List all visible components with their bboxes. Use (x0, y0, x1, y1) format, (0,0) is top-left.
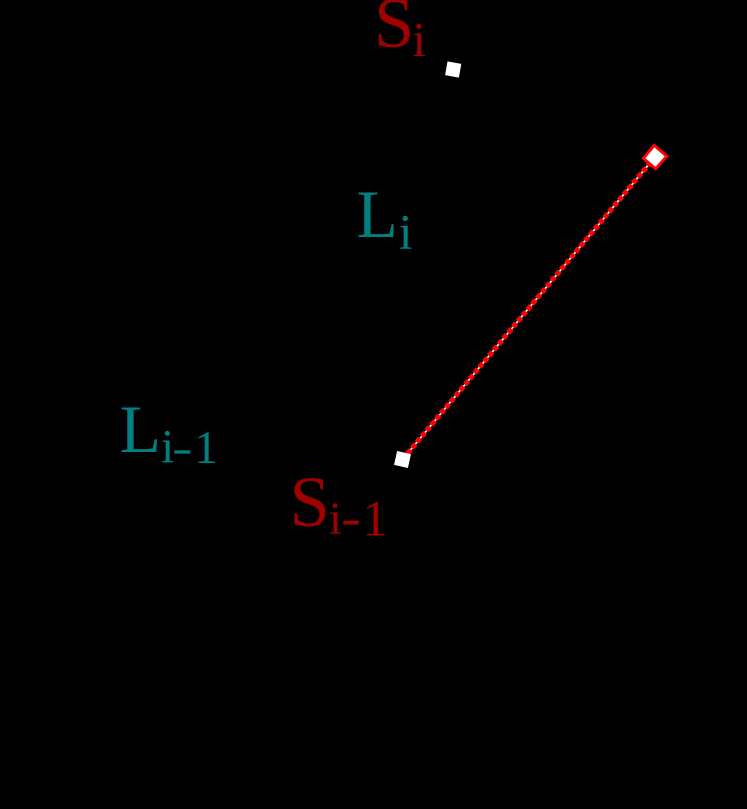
svg-text:1: 1 (362, 491, 387, 547)
wire: white underlay of dashed segment S_{i-1} to diamond (403, 158, 655, 460)
svg-text:i: i (413, 13, 427, 67)
svg-text:L: L (357, 177, 398, 252)
svg-text:i: i (329, 492, 342, 543)
svg-text:S: S (290, 461, 330, 542)
marker: white square at S_{i-1} (394, 451, 411, 468)
svg-text:i: i (161, 421, 174, 474)
svg-text:1: 1 (194, 422, 218, 474)
wire: red dashed segment S_{i-1} to diamond (403, 158, 655, 460)
label L_{i-1} : subscript minus (174, 450, 190, 453)
marker: white square at S_i (445, 61, 461, 77)
marker: red diamond (white fill) at end of dashed segment (643, 145, 666, 168)
label S_{i-1} : subscript minus (343, 521, 358, 525)
svg-text:L: L (120, 392, 161, 467)
svg-text:i: i (399, 205, 413, 260)
svg-text:S: S (374, 0, 414, 63)
